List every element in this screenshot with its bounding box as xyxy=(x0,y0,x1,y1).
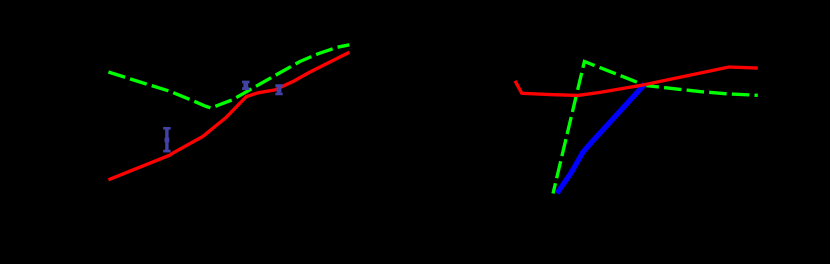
left plot error bar 1 xyxy=(163,128,170,151)
left plot error bar 2 xyxy=(242,82,249,89)
left plot green dashed curve xyxy=(108,45,349,108)
left plot red solid curve xyxy=(108,52,349,180)
right plot blue thick line xyxy=(557,84,645,193)
left plot error bar 3 xyxy=(275,86,282,94)
right plot green dashed curve xyxy=(553,62,758,194)
right plot red solid curve xyxy=(515,67,758,95)
